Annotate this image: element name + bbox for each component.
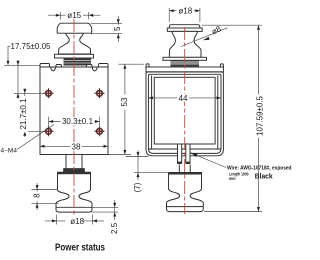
svg-text:38: 38 <box>72 143 81 152</box>
svg-text:17.75±0.05: 17.75±0.05 <box>11 42 52 51</box>
svg-text:4−M4: 4−M4 <box>1 148 18 155</box>
svg-text:44: 44 <box>179 94 188 103</box>
svg-text:21.7±0.1: 21.7±0.1 <box>19 98 28 130</box>
svg-text:5: 5 <box>113 26 122 31</box>
svg-text:Power status: Power status <box>55 241 105 253</box>
svg-text:Black: Black <box>255 171 273 180</box>
svg-text:30.3±0.1: 30.3±0.1 <box>62 117 94 126</box>
svg-text:107.59±0.5: 107.59±0.5 <box>256 95 265 136</box>
svg-text:mm: mm <box>229 176 236 181</box>
svg-text:2.5: 2.5 <box>110 222 119 234</box>
svg-text:ø18: ø18 <box>70 217 84 226</box>
svg-text:(7): (7) <box>133 182 142 192</box>
svg-text:8: 8 <box>32 193 41 198</box>
svg-text:53: 53 <box>120 97 129 106</box>
svg-text:ø18: ø18 <box>178 7 192 16</box>
svg-text:ø15: ø15 <box>67 11 81 20</box>
